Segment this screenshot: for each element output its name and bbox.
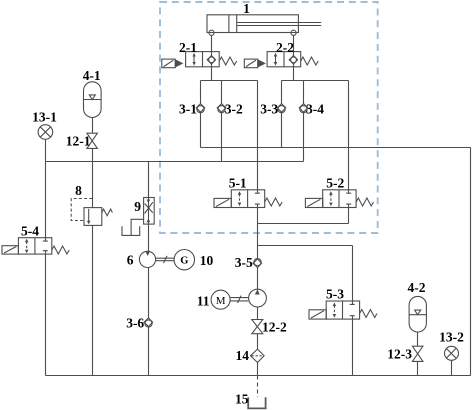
wire: mid link to 5-3 y=245	[258, 245, 353, 247]
wire: accumulator 4-1 column x=92.5	[92, 118, 94, 376]
wire: left column x=45.5	[45, 139, 47, 375]
cylinder 1	[207, 15, 321, 36]
check valve 3-4	[299, 104, 308, 113]
svg-text:13-2: 13-2	[439, 330, 464, 345]
drain tank of valve 9	[122, 219, 144, 235]
dashed control-unit boundary box	[160, 2, 378, 233]
check valve 3-3	[277, 104, 286, 113]
shaft 11-pump	[230, 296, 248, 303]
valve 2-2	[244, 52, 318, 68]
accumulator 4-1	[84, 82, 102, 118]
svg-text:M: M	[216, 295, 226, 307]
motor 11	[211, 290, 230, 309]
relief valve 8	[71, 199, 112, 226]
accumulator 4-2	[409, 296, 426, 332]
shut-off valve 12-2	[252, 320, 263, 334]
svg-text:3-1: 3-1	[179, 102, 197, 117]
wire: bottom tank rail y=375	[46, 375, 471, 377]
wire: rail A y=147.5	[201, 147, 471, 149]
svg-text:4-2: 4-2	[408, 280, 426, 295]
svg-text:11: 11	[197, 294, 210, 309]
wire: right-side rail	[470, 148, 472, 376]
wire: dashed suction to tank 15	[257, 376, 259, 398]
check valve 3-1	[196, 104, 205, 113]
generator 10	[174, 250, 194, 270]
svg-text:5-1: 5-1	[229, 176, 247, 191]
svg-text:1: 1	[243, 1, 250, 16]
svg-text:2-1: 2-1	[179, 40, 197, 55]
wire: 5-3 column x=352.5	[352, 246, 354, 376]
svg-text:3-6: 3-6	[126, 316, 144, 331]
svg-text:8: 8	[75, 183, 82, 198]
svg-text:3-3: 3-3	[260, 102, 278, 117]
wire: 3-2 branch x=221.5	[221, 81, 223, 162]
throttle valve 9	[144, 198, 155, 225]
wire: 3-4 branch x=302.5	[303, 81, 305, 162]
wire: cylinder left port to valve 2-1 x=211.5	[211, 35, 213, 80]
svg-text:12-1: 12-1	[66, 134, 91, 149]
wire: rail B (accumulator rail) y=161	[46, 161, 304, 163]
wire: top rail right group y=80.3	[282, 80, 349, 82]
svg-text:3-5: 3-5	[235, 255, 253, 270]
filter 14	[251, 349, 265, 362]
pressure gauge 13-2	[445, 346, 459, 360]
svg-text:13-1: 13-1	[32, 110, 57, 125]
wire: center column x=257.5 (5-1 / 3-5 / pump 11 / 12-2 / 14)	[257, 81, 259, 376]
valve 5-2	[305, 190, 373, 208]
valve 2-1	[162, 52, 237, 68]
wire: 3-1 branch x=200.5	[200, 81, 202, 148]
svg-text:G: G	[180, 256, 188, 267]
svg-text:10: 10	[200, 253, 214, 268]
wire: 5-2 bottom link y=223.5	[258, 223, 349, 225]
check valve 3-5	[253, 259, 262, 268]
wire: pump column x=148.5	[148, 162, 150, 376]
check valve 3-6	[144, 318, 153, 327]
valve 5-4	[2, 238, 69, 254]
svg-text:9: 9	[134, 199, 141, 214]
pressure gauge 13-1	[38, 125, 53, 140]
svg-text:3-2: 3-2	[225, 102, 243, 117]
svg-text:12-3: 12-3	[387, 347, 412, 362]
svg-text:15: 15	[235, 392, 249, 407]
svg-text:3-4: 3-4	[306, 102, 324, 117]
pump 6	[139, 251, 155, 267]
wire: cylinder right port to valve 2-2 x=293.5	[293, 35, 295, 80]
wire: gauge 13-2 drop x=451.5	[451, 360, 453, 375]
tank 15	[248, 397, 265, 408]
svg-text:5-2: 5-2	[326, 176, 344, 191]
wire: 5-2 feed column x=348.5	[348, 81, 350, 224]
valve 5-3	[309, 301, 377, 319]
svg-text:12-2: 12-2	[262, 320, 287, 335]
wire: top rail left group y=80.3	[201, 80, 258, 82]
shaft 6-10	[156, 256, 175, 263]
shut-off valve 12-1	[87, 133, 98, 148]
svg-text:2-2: 2-2	[276, 40, 294, 55]
pump 11a (emergency pump)	[249, 289, 267, 307]
valve 5-1	[214, 190, 282, 208]
svg-text:5-4: 5-4	[21, 224, 39, 239]
check valve 3-2	[217, 104, 226, 113]
svg-text:14: 14	[236, 348, 250, 363]
svg-text:4-1: 4-1	[83, 68, 101, 83]
wire: 3-3 branch x=281.5	[281, 81, 283, 148]
wire: accumulator 4-2 column x=417.5	[417, 332, 419, 376]
svg-text:6: 6	[127, 253, 134, 268]
shut-off valve 12-3	[412, 346, 423, 361]
svg-text:5-3: 5-3	[326, 287, 344, 302]
